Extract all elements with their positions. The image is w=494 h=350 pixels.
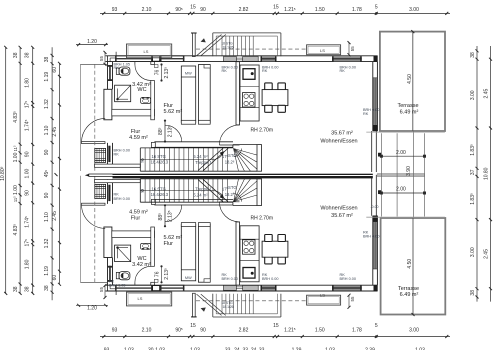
svg-text:16 STG: 16 STG [151, 154, 165, 159]
svg-text:2.45: 2.45 [483, 249, 489, 259]
svg-text:2.10: 2.10 [142, 327, 152, 333]
svg-text:5: 5 [375, 4, 378, 10]
svg-text:90: 90 [200, 7, 206, 13]
svg-text:6.49 m²: 6.49 m² [400, 292, 419, 298]
svg-text:RH 2.70m: RH 2.70m [251, 215, 274, 221]
svg-text:35.67 m²: 35.67 m² [331, 213, 353, 219]
svg-text:18.4/26.3: 18.4/26.3 [151, 160, 169, 165]
svg-text:1.19: 1.19 [44, 72, 50, 82]
svg-text:1.10: 1.10 [44, 212, 50, 222]
right dimension chain A [476, 46, 478, 302]
svg-text:15: 15 [273, 4, 279, 10]
svg-text:RK: RK [363, 112, 369, 116]
svg-text:18.1/26: 18.1/26 [223, 305, 234, 309]
svg-text:38: 38 [44, 57, 50, 63]
svg-text:60: 60 [52, 275, 58, 281]
left dimension chain L2 [19, 47, 21, 293]
svg-text:10.805: 10.805 [0, 166, 6, 181]
top dimension chain line [100, 12, 450, 14]
svg-text:BRH 1.05: BRH 1.05 [109, 283, 125, 287]
bottom roof strip (mirrored) [76, 284, 351, 317]
svg-text:1.78: 1.78 [352, 7, 362, 13]
left dimension chain L5 [59, 63, 61, 284]
svg-text:1.10: 1.10 [44, 125, 50, 135]
svg-text:1.00: 1.00 [13, 152, 19, 162]
svg-text:LS: LS [320, 293, 325, 298]
svg-text:55: 55 [350, 46, 355, 52]
svg-text:3.00: 3.00 [409, 7, 419, 13]
svg-text:3.00: 3.00 [470, 90, 476, 100]
svg-text:BRH 0.00: BRH 0.00 [340, 277, 356, 281]
svg-text:RH 2.70m: RH 2.70m [251, 128, 274, 134]
steps area verticals [380, 133, 382, 216]
steps area top/bottom edges [366, 131, 445, 133]
svg-text:38: 38 [25, 286, 31, 292]
svg-text:90: 90 [141, 189, 145, 193]
svg-text:1.00: 1.00 [25, 169, 31, 179]
svg-text:38: 38 [470, 52, 476, 58]
svg-text:37: 37 [470, 169, 476, 175]
svg-text:2.45: 2.45 [483, 89, 489, 99]
party wall porch part (pointed divider) [89, 173, 113, 175]
svg-text:55: 55 [99, 287, 104, 293]
svg-text:15: 15 [190, 4, 196, 10]
party wall terrace side gray band [377, 174, 424, 177]
svg-text:55: 55 [350, 296, 355, 302]
svg-text:2.82: 2.82 [239, 7, 249, 13]
svg-text:1.00: 1.00 [13, 185, 19, 195]
svg-text:2.45: 2.45 [52, 211, 58, 221]
party wall main band [113, 174, 373, 179]
dim line 2.00 lower [381, 192, 424, 194]
svg-text:RK: RK [222, 69, 228, 73]
svg-text:1.32: 1.32 [44, 238, 50, 248]
svg-text:1.745: 1.745 [24, 216, 30, 228]
svg-text:Terrasse: Terrasse [397, 103, 418, 109]
svg-text:1.50: 1.50 [315, 7, 325, 13]
svg-text:1.80: 1.80 [25, 259, 31, 269]
svg-text:BRH 0.00: BRH 0.00 [363, 234, 379, 238]
svg-text:90: 90 [44, 149, 50, 155]
svg-text:4.59 m²: 4.59 m² [129, 135, 148, 141]
svg-text:2.45: 2.45 [52, 127, 58, 137]
svg-text:3.00: 3.00 [409, 327, 419, 333]
svg-text:35.67 m²: 35.67 m² [331, 131, 353, 137]
svg-text:RK: RK [114, 192, 120, 196]
svg-text:WC: WC [137, 87, 146, 93]
svg-text:LS: LS [320, 48, 325, 53]
svg-text:RK: RK [114, 153, 120, 157]
bottom dimension chain line [100, 336, 450, 338]
bottom unit geometry (mirrored) [80, 175, 381, 295]
svg-text:93: 93 [112, 327, 118, 333]
svg-text:3.90: 3.90 [406, 166, 412, 176]
svg-text:Wohnen/Essen: Wohnen/Essen [320, 205, 357, 211]
svg-text:76: 76 [154, 271, 160, 277]
svg-text:Wohnen/Essen: Wohnen/Essen [320, 139, 357, 145]
svg-text:38: 38 [470, 290, 476, 296]
svg-text:1.745: 1.745 [24, 119, 30, 131]
svg-text:1.80: 1.80 [25, 78, 31, 88]
svg-text:5: 5 [375, 323, 378, 329]
svg-text:90: 90 [141, 159, 145, 163]
svg-text:LS: LS [138, 296, 143, 301]
svg-text:5.62 m²: 5.62 m² [164, 109, 183, 115]
svg-text:90: 90 [25, 151, 31, 157]
svg-text:RK: RK [114, 66, 120, 70]
left dimension chain L3 [32, 47, 34, 293]
left dimension chain L1 [5, 47, 7, 293]
svg-text:38: 38 [13, 286, 19, 292]
svg-text:Flur: Flur [164, 241, 174, 247]
svg-text:1.32: 1.32 [44, 99, 50, 109]
svg-text:90: 90 [44, 192, 50, 198]
svg-text:MW: MW [185, 276, 192, 280]
svg-text:BRH 0.00: BRH 0.00 [262, 277, 278, 281]
right dimension chain B [490, 46, 492, 302]
svg-text:Flur: Flur [131, 216, 141, 222]
terrace bottom [381, 218, 446, 315]
svg-text:4.50: 4.50 [407, 259, 413, 269]
svg-text:2.00: 2.00 [396, 187, 406, 193]
svg-text:3.42 m²: 3.42 m² [132, 262, 151, 268]
left dimension chain L4 [51, 47, 53, 300]
terrace top [380, 32, 445, 131]
svg-text:BRH 0.00: BRH 0.00 [114, 197, 130, 201]
svg-text:15: 15 [273, 323, 279, 329]
svg-text:RK: RK [340, 69, 346, 73]
svg-text:1.20: 1.20 [87, 39, 97, 45]
svg-text:18.1/26: 18.1/26 [223, 46, 234, 50]
svg-text:55: 55 [99, 56, 104, 62]
svg-text:Treppe 1: Treppe 1 [195, 186, 212, 191]
svg-text:Treppe 1: Treppe 1 [195, 160, 212, 165]
svg-text:38: 38 [44, 285, 50, 291]
svg-text:90: 90 [200, 327, 206, 333]
svg-text:1.19: 1.19 [44, 266, 50, 276]
svg-text:4.50: 4.50 [407, 74, 413, 84]
terrace bottom middle line [412, 218, 414, 315]
svg-text:2.82: 2.82 [239, 327, 249, 333]
svg-text:1.78: 1.78 [352, 327, 362, 333]
svg-text:-0.00: -0.00 [371, 205, 379, 209]
svg-text:2.10: 2.10 [142, 7, 152, 13]
svg-text:5.24 m²: 5.24 m² [193, 193, 208, 198]
svg-text:16 STG: 16 STG [151, 186, 165, 191]
svg-text:38: 38 [25, 52, 31, 58]
svg-text:15: 15 [190, 323, 196, 329]
svg-text:3.00: 3.00 [470, 247, 476, 257]
top stair [140, 145, 261, 172]
svg-text:10.80: 10.80 [483, 167, 489, 180]
svg-text:LS: LS [144, 49, 149, 54]
svg-text:38: 38 [13, 52, 19, 58]
bottom stair (mirrored) [140, 179, 261, 206]
svg-text:2.00: 2.00 [396, 150, 406, 156]
svg-text:90: 90 [25, 190, 31, 196]
svg-text:76: 76 [154, 70, 160, 76]
top roof strip [76, 33, 351, 66]
svg-text:60: 60 [52, 67, 58, 73]
svg-text:RK: RK [262, 69, 268, 73]
svg-text:MW: MW [185, 71, 192, 75]
terrace top middle line [412, 32, 414, 131]
svg-text:1.20: 1.20 [87, 306, 97, 312]
svg-text:1.50: 1.50 [315, 327, 325, 333]
top unit geometry [80, 52, 381, 172]
svg-text:93: 93 [112, 7, 118, 13]
svg-text:5.24 m²: 5.24 m² [193, 154, 208, 159]
svg-text:RK: RK [109, 280, 115, 284]
svg-text:18.4/26.3: 18.4/26.3 [151, 192, 169, 197]
svg-text:BRH 0.00: BRH 0.00 [222, 277, 238, 281]
svg-text:6.49 m²: 6.49 m² [400, 110, 419, 116]
dim line 2.00 upper [381, 155, 424, 157]
